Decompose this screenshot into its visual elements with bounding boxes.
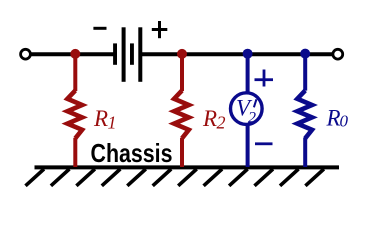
svg-text:R: R — [326, 106, 341, 131]
svg-text:0: 0 — [340, 112, 349, 131]
svg-text:R: R — [202, 106, 217, 131]
svg-text:Chassis: Chassis — [91, 138, 173, 168]
svg-text:2: 2 — [248, 110, 256, 127]
svg-text:2: 2 — [217, 112, 226, 132]
svg-text:R: R — [93, 106, 108, 131]
svg-text:1: 1 — [108, 112, 117, 132]
